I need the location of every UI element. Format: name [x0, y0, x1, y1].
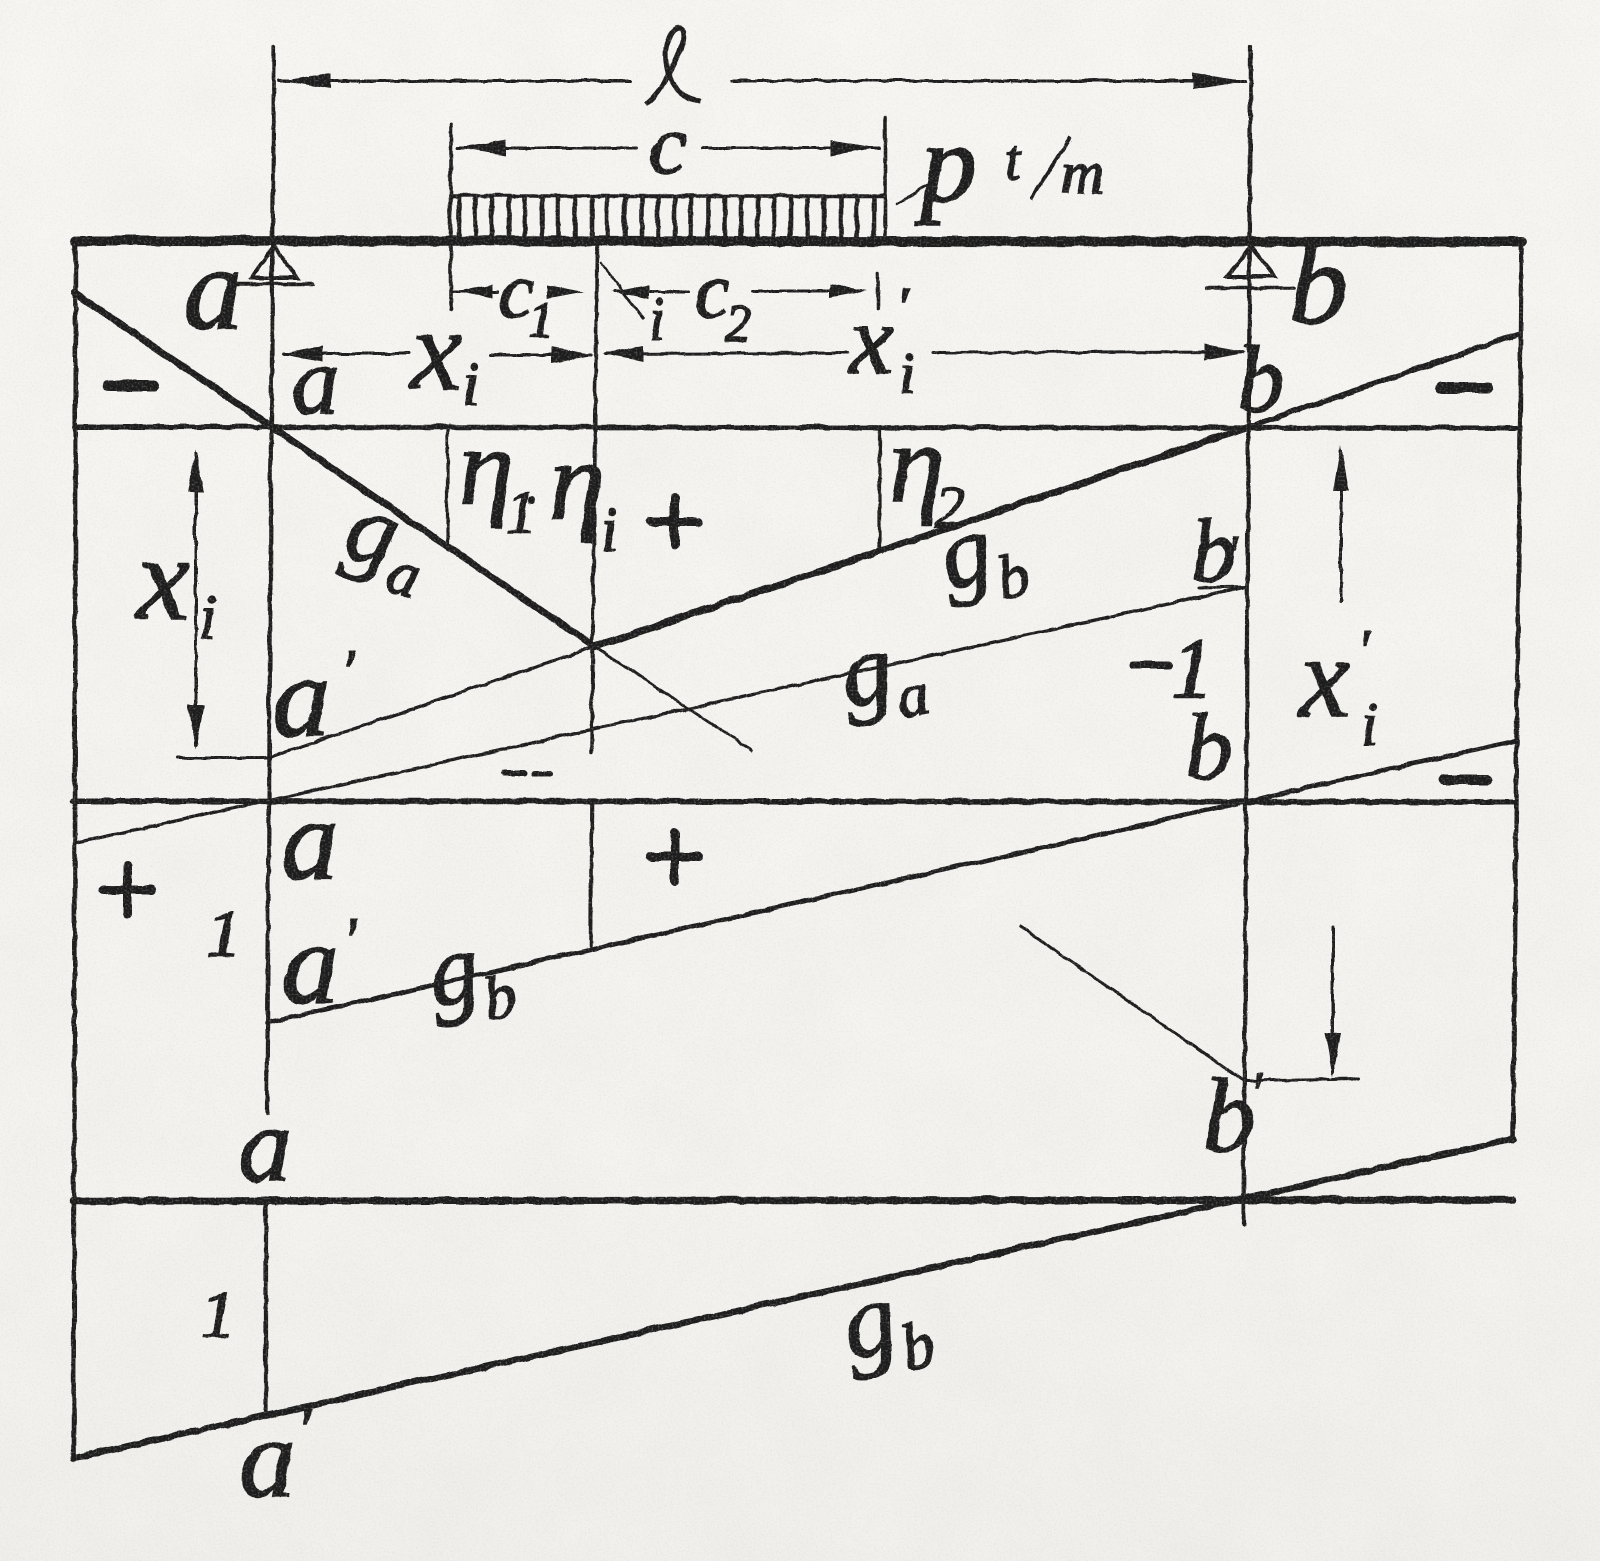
c2 dimension line — [614, 290, 688, 293]
xi' band2 up arrow head — [1332, 444, 1348, 490]
arrowheads — [187, 72, 1348, 1076]
plus band2 — [650, 497, 698, 545]
plus and minus signs — [103, 385, 1487, 913]
c2 dim arrows — [611, 284, 648, 298]
g_a line thin extension — [594, 646, 751, 750]
load right edge — [882, 116, 886, 240]
section i vertical — [591, 240, 596, 751]
label ga band1 — [331, 469, 440, 611]
label ga band2 thin — [831, 604, 933, 739]
support a vertical lower segment — [263, 1198, 267, 1414]
minus band3 right — [1442, 774, 1486, 784]
g_a line thick part — [74, 292, 594, 646]
xi top dim arrows — [280, 345, 322, 361]
b' tick band2 — [1198, 586, 1246, 587]
axis 1 (Q influence baseline) — [74, 426, 1519, 427]
xi' top dim arrows — [601, 345, 643, 361]
c1 dim arrows — [455, 284, 492, 298]
c2 right tick — [875, 272, 879, 308]
minus band1 left — [108, 380, 153, 391]
l dim arrows — [280, 72, 330, 88]
xi' measure up arrow band2 — [1339, 450, 1342, 600]
support b vertical — [1243, 47, 1250, 1223]
minus of -1 label — [1132, 660, 1168, 668]
g_b third diagram line — [266, 740, 1514, 1022]
load top line — [450, 193, 884, 197]
minus dashes band2 — [503, 772, 550, 773]
support a ground line — [233, 281, 311, 285]
p t/m leader — [897, 184, 928, 203]
i label leader — [600, 262, 642, 317]
xi band2 down arrow head — [187, 704, 203, 748]
label gb band2 — [928, 484, 1034, 623]
g_a second diagram line — [74, 586, 1245, 842]
plus band3 left — [103, 865, 151, 913]
load left edge — [448, 123, 452, 308]
down arrow band3 — [1331, 926, 1334, 1072]
beam top chord — [75, 240, 1521, 241]
xi' top dimension line — [604, 352, 848, 353]
leader diagonal to b' band3 — [1020, 926, 1243, 1080]
label gb band3 — [418, 905, 520, 1042]
g_b fourth diagram long line — [74, 1138, 1512, 1457]
c dimension line — [456, 146, 636, 149]
g_b line thin part a' to i — [267, 646, 594, 757]
section i vertical lower segment — [590, 801, 591, 945]
c1 dimension line — [452, 290, 497, 293]
xi top dimension line — [282, 352, 408, 355]
xi measure foot tick — [176, 756, 267, 759]
g_b line b to right edge — [1251, 333, 1519, 425]
axis 3 (third baseline) — [72, 1199, 1511, 1200]
axis 2 (second baseline) — [72, 800, 1514, 801]
support a vertical — [266, 46, 273, 1112]
c dim arrows — [457, 139, 505, 155]
support b ground line — [1206, 285, 1294, 289]
minus band1 right — [1440, 382, 1487, 393]
plus band3 mid — [650, 832, 698, 880]
label gb band4 — [830, 1249, 941, 1395]
g_b line thick part i to b — [594, 425, 1251, 646]
support b triangle — [1226, 246, 1274, 276]
eta2 ordinate tick — [877, 427, 880, 549]
right frame edge — [1512, 240, 1521, 1139]
support a triangle — [251, 246, 296, 277]
left frame edge — [73, 240, 75, 1458]
eta1 ordinate tick — [445, 427, 448, 547]
band3 down arrow head — [1324, 1032, 1340, 1076]
xi band2 up arrow head — [187, 448, 203, 492]
l dimension line — [278, 79, 630, 82]
xi measure double arrow band2 — [194, 452, 197, 744]
b' tick band3 — [1246, 1078, 1357, 1080]
label l (script ell) — [645, 27, 700, 103]
distributed load hatching — [458, 196, 873, 238]
